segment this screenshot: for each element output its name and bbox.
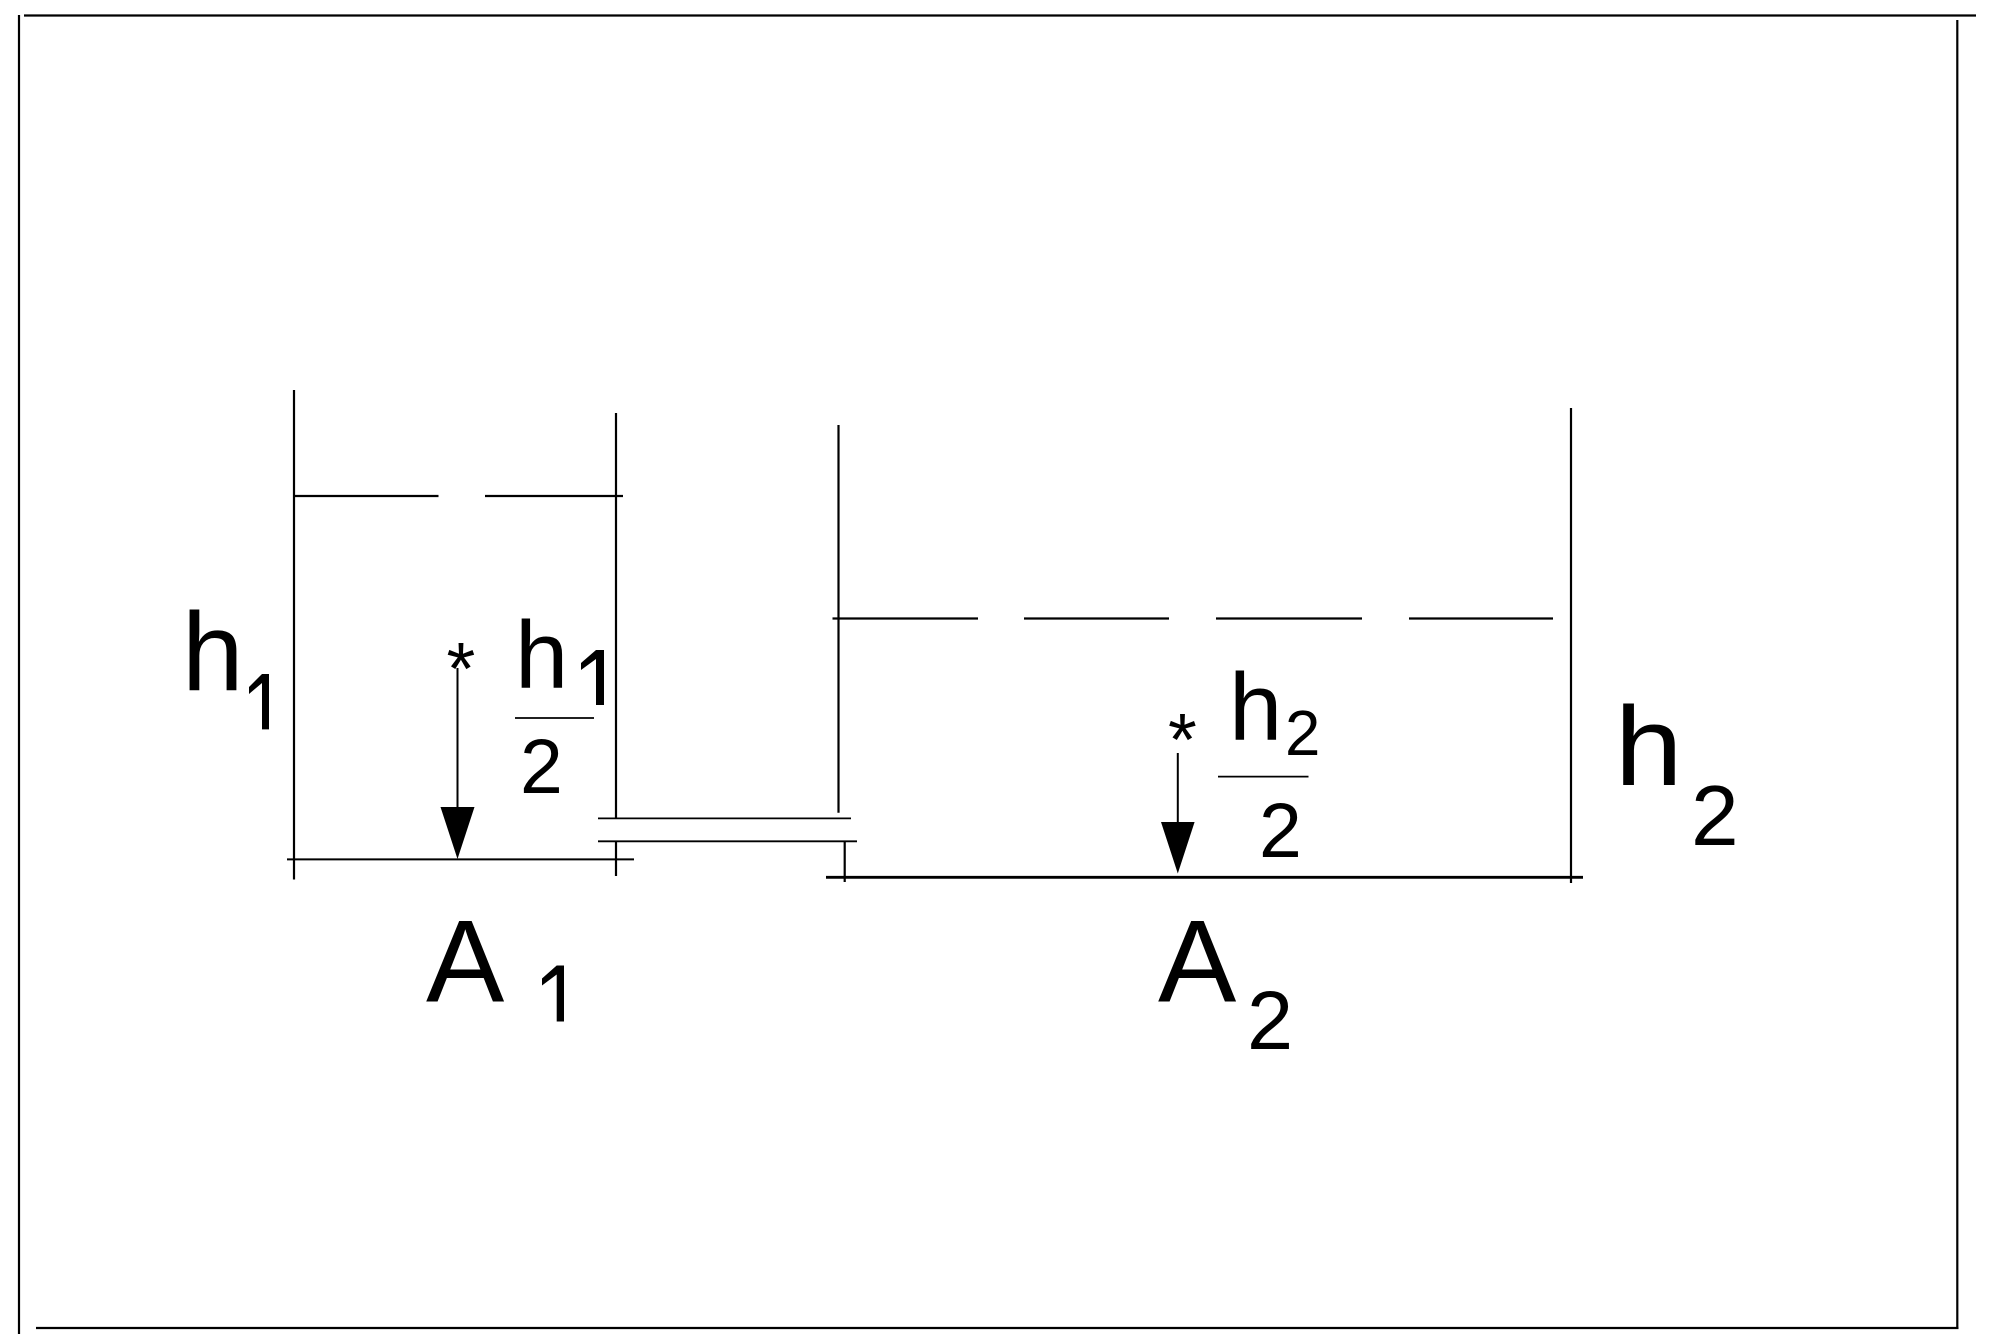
tank 1 water level dash 2: [485, 495, 623, 497]
tank 2 water level dash 4: [1409, 617, 1553, 619]
tank 2 water level dash 2: [1024, 617, 1169, 619]
tank 1 right wall lower segment: [615, 842, 617, 877]
tank 2 left wall lower segment: [844, 842, 846, 882]
svg-text:h: h: [1615, 684, 1683, 810]
tank 2 left wall upper segment: [837, 425, 839, 813]
frame right border: [1956, 20, 1958, 1329]
svg-text:*: *: [1168, 698, 1197, 781]
tank 1 right wall upper segment: [615, 413, 617, 818]
frame left border: [18, 15, 20, 1334]
frame top border: [24, 14, 1976, 16]
svg-text:A: A: [426, 896, 505, 1027]
svg-text:2: 2: [1247, 974, 1293, 1067]
tank 1 centroid arrow head: [441, 807, 475, 859]
tank 2 centroid arrow shaft: [1177, 753, 1179, 823]
tank 1 bottom line: [287, 858, 634, 860]
tank 2 water level dash 3: [1216, 617, 1362, 619]
connecting channel top line: [598, 817, 851, 819]
svg-text:h: h: [182, 590, 244, 714]
fraction h1/2 left : subscript 1: [581, 650, 604, 705]
connecting channel bottom line: [598, 840, 857, 842]
svg-text:2: 2: [1691, 768, 1739, 864]
svg-text:2: 2: [520, 724, 563, 810]
label A1 : subscript 1: [542, 966, 564, 1022]
tank 1 water level dash 1: [294, 495, 439, 497]
svg-text:h: h: [515, 602, 568, 709]
frame bottom border: [36, 1327, 1959, 1329]
tank 1 centroid arrow shaft: [457, 668, 459, 808]
fraction h1/2 left : bar: [515, 717, 594, 719]
tank 2 right wall: [1570, 408, 1572, 883]
svg-text:h: h: [1229, 654, 1282, 761]
svg-text:2: 2: [1285, 698, 1320, 769]
svg-text:A: A: [1158, 896, 1237, 1027]
tank 2 bottom line: [826, 876, 1583, 879]
tank 1 left wall: [293, 390, 295, 880]
svg-text:2: 2: [1259, 788, 1302, 874]
tank 2 centroid arrow head: [1161, 822, 1195, 874]
label h1 : subscript 1: [249, 674, 269, 729]
svg-text:*: *: [447, 627, 476, 710]
tank 2 water level dash 1: [833, 617, 979, 619]
fraction h2/2 right : bar: [1218, 776, 1309, 778]
